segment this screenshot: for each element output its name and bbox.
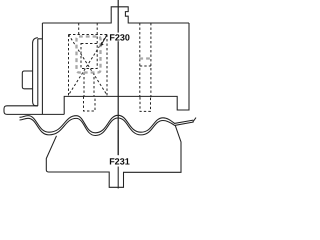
svg-text:F230: F230 <box>109 33 130 43</box>
break line end tick <box>193 118 196 123</box>
right hidden fuse pair verticals <box>140 23 151 97</box>
label F230 leader arrow <box>102 35 107 44</box>
wavy break line (upper stroke) <box>20 115 194 133</box>
dashed stubs to top edge <box>78 23 80 35</box>
right dashed column <box>106 35 108 97</box>
inner fuse dashed rectangle <box>81 44 97 69</box>
hidden fuse carrier outer dashed rectangle <box>69 23 108 96</box>
right pair cross bar <box>140 65 151 67</box>
housing right edge and stepped bottom <box>64 23 189 114</box>
dashed legs below fuse <box>84 73 94 97</box>
label F230 <box>109 33 131 42</box>
label F231 <box>109 157 129 165</box>
fuse box upper housing top edge with mounting tab <box>42 7 189 23</box>
svg-text:F231: F231 <box>109 157 130 167</box>
left mounting flange <box>4 106 64 115</box>
housing inner left wall <box>38 23 43 114</box>
wavy break line (lower stroke) <box>20 118 194 136</box>
X cross brace diagonals <box>69 35 108 96</box>
lower cover outline F231 <box>46 126 181 188</box>
small dashed connector box below edge (right) <box>140 97 151 111</box>
pointer line to F231 <box>117 130 119 189</box>
small dashed connector box below edge (left) <box>84 97 96 112</box>
housing outer left wall <box>33 38 38 106</box>
center seam / pointer line to F230 <box>117 0 119 155</box>
gray highlight dash on right pair <box>139 57 151 59</box>
left clip bump <box>22 71 32 89</box>
gray highlight box around fuse F230 <box>77 37 101 73</box>
